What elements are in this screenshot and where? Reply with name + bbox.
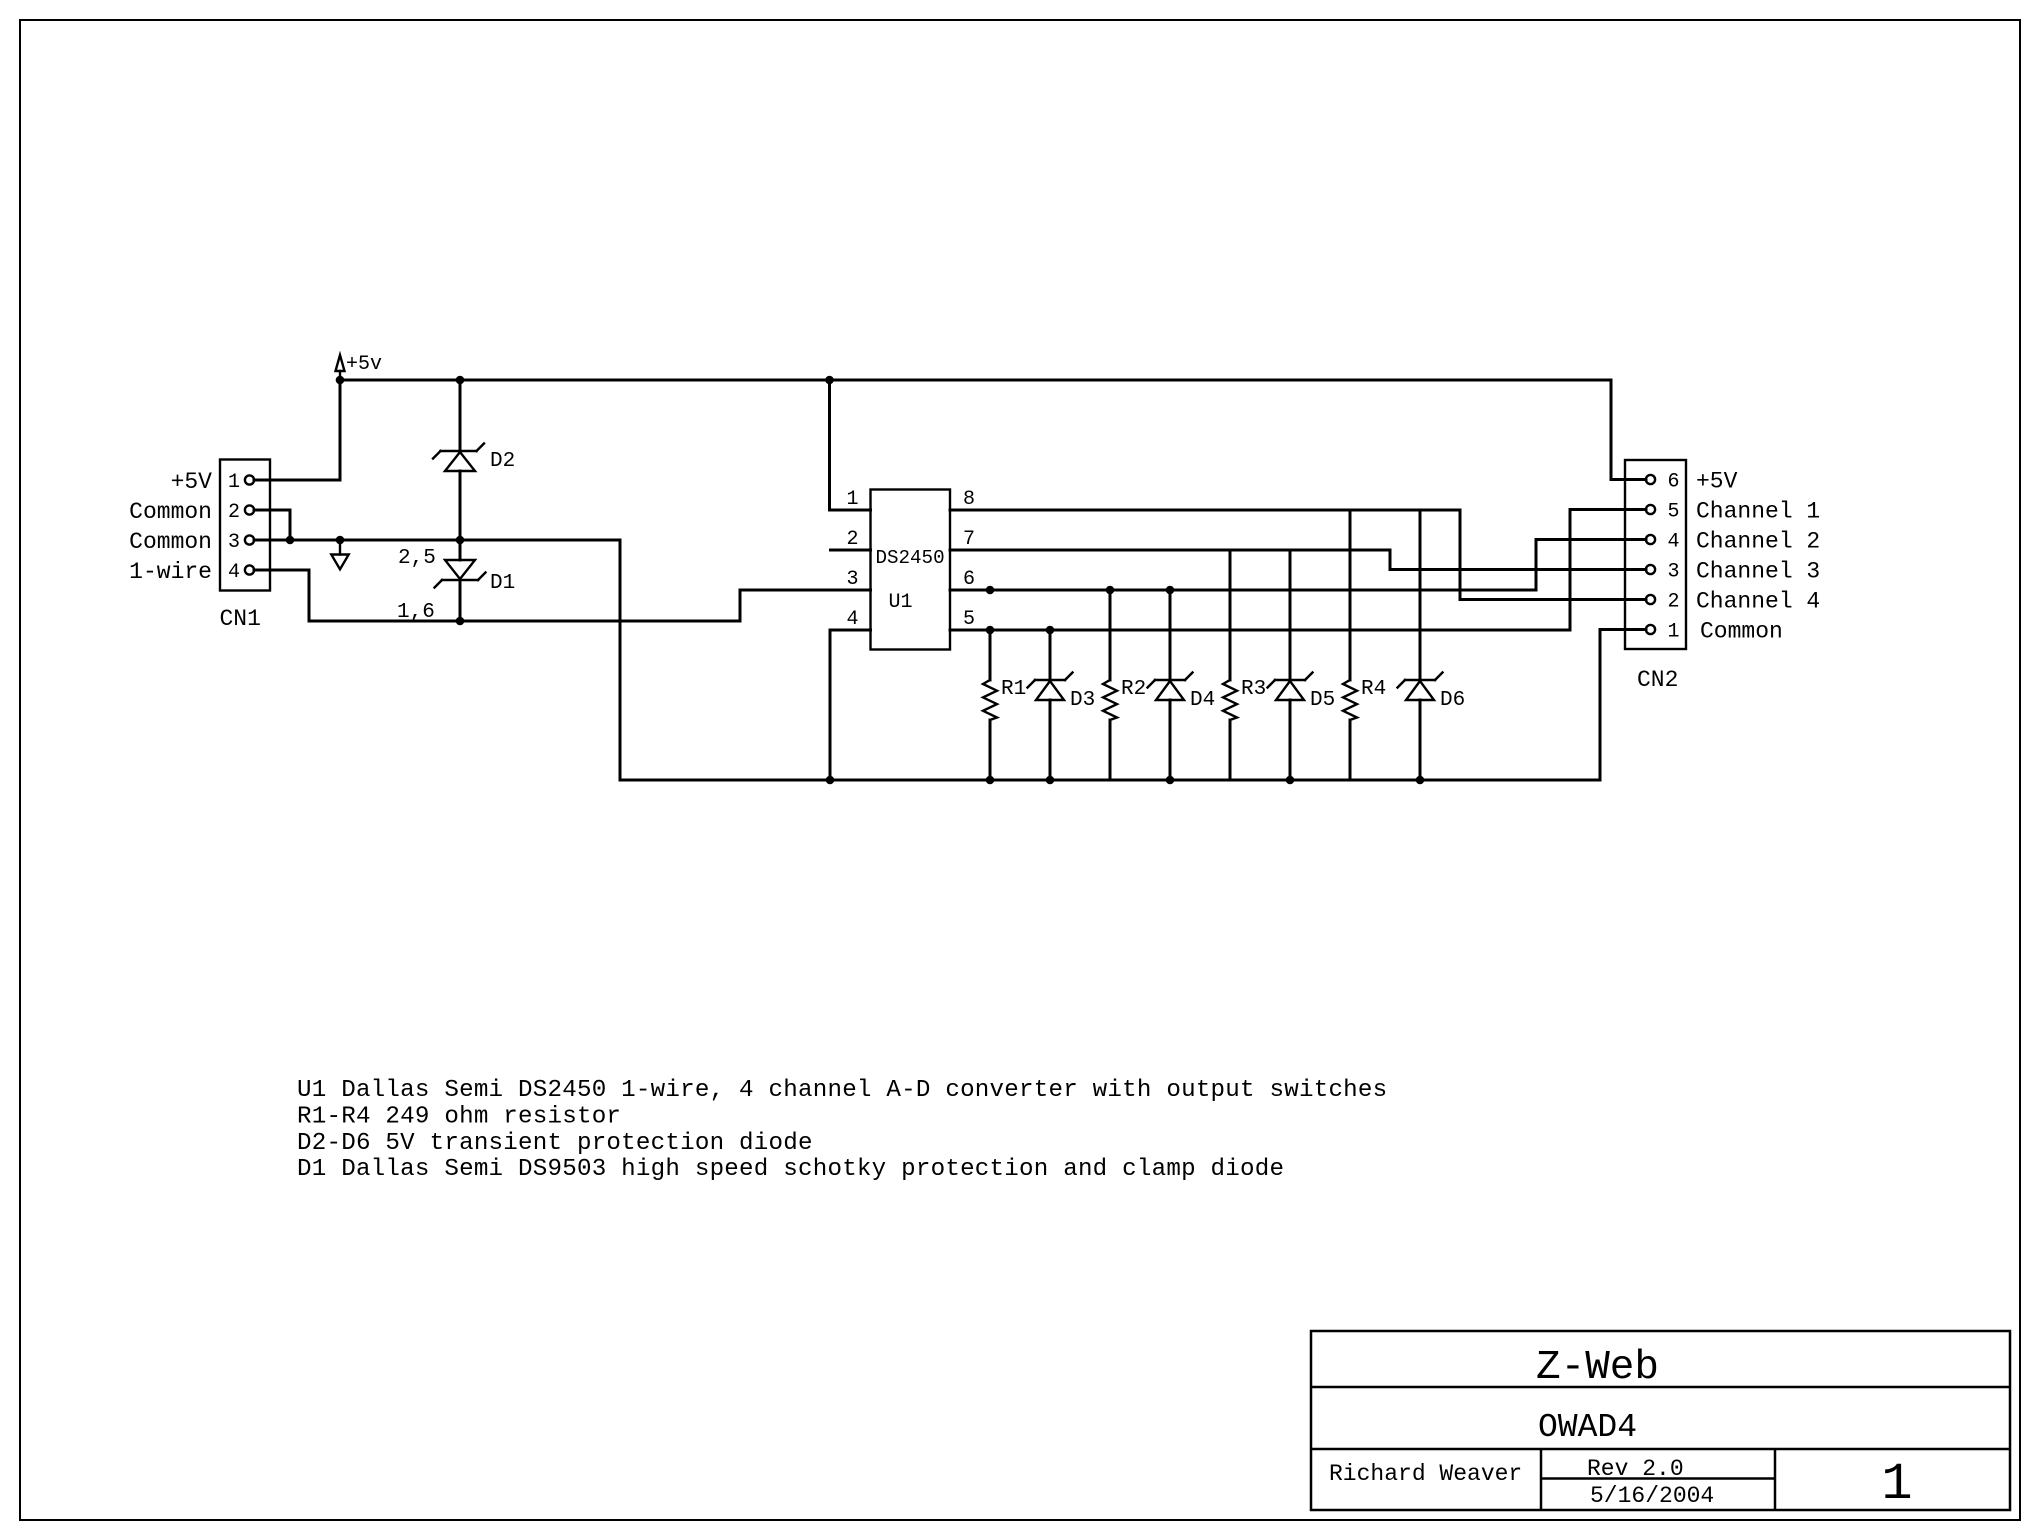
wire +5V rail to CN2 pin 6 bbox=[1611, 380, 1646, 480]
svg-text:Common: Common bbox=[1700, 619, 1783, 645]
node +5V rail / arrow / CN1 pin1 junction bbox=[336, 376, 345, 385]
svg-text:DS2450: DS2450 bbox=[876, 547, 945, 569]
IC U1 DS2450 bbox=[871, 490, 951, 650]
node ground rail / D5 bbox=[1286, 776, 1295, 785]
node Common / D2-D1 junction bbox=[456, 536, 465, 545]
node +5V rail / U1 pin1 junction bbox=[825, 376, 834, 385]
svg-text:R3: R3 bbox=[1241, 678, 1266, 701]
node 1-wire / D1 junction bbox=[456, 617, 465, 626]
svg-text:CN1: CN1 bbox=[220, 606, 261, 632]
svg-text:+5V: +5V bbox=[1696, 469, 1738, 495]
power symbol +5v bbox=[336, 353, 383, 380]
diode D4 bbox=[1148, 590, 1216, 780]
node pin5 net / R1 junction bbox=[986, 626, 995, 635]
node Common / ground junction bbox=[336, 536, 345, 545]
svg-text:6: 6 bbox=[963, 568, 975, 591]
wire 1-wire from CN1 pin4 bbox=[254, 570, 740, 621]
wire 1-wire to U1 pin 3 bbox=[740, 590, 871, 621]
svg-text:1: 1 bbox=[1881, 1455, 1912, 1514]
svg-text:U1: U1 bbox=[889, 591, 913, 614]
svg-text:R4: R4 bbox=[1361, 678, 1386, 701]
diode D5 bbox=[1268, 550, 1336, 780]
CN2 pin numbers bbox=[1667, 471, 1679, 644]
CN2 pin labels bbox=[1696, 469, 1820, 645]
CN1 pin numbers bbox=[228, 471, 240, 584]
svg-text:2,5: 2,5 bbox=[398, 547, 436, 570]
svg-text:D6: D6 bbox=[1440, 689, 1465, 712]
node ground rail / D3 bbox=[1046, 776, 1055, 785]
svg-text:6: 6 bbox=[1667, 471, 1679, 494]
svg-text:5/16/2004: 5/16/2004 bbox=[1590, 1483, 1714, 1509]
wire U1 pin 6 to CN2 pin 4 Channel 2 bbox=[950, 540, 1646, 591]
ground bbox=[331, 540, 348, 569]
svg-text:2: 2 bbox=[1667, 591, 1679, 614]
svg-text:4: 4 bbox=[228, 561, 240, 584]
svg-text:OWAD4: OWAD4 bbox=[1538, 1409, 1637, 1446]
CN1 pin labels bbox=[129, 469, 212, 585]
svg-text:R1-R4 249 ohm resistor: R1-R4 249 ohm resistor bbox=[297, 1103, 621, 1130]
connector CN2 bbox=[1625, 460, 1686, 649]
resistor R2 bbox=[1103, 590, 1146, 780]
wire U1 pin 1 to +5V rail bbox=[830, 380, 871, 510]
svg-text:Channel 1: Channel 1 bbox=[1696, 499, 1820, 525]
svg-text:D2-D6 5V transient protection: D2-D6 5V transient protection diode bbox=[297, 1130, 813, 1157]
svg-text:D3: D3 bbox=[1070, 689, 1095, 712]
svg-text:+5V: +5V bbox=[171, 469, 213, 495]
U1 pin numbers bbox=[846, 488, 975, 631]
diode D3 bbox=[1028, 630, 1096, 780]
node pin6 net / R2 junction bbox=[1106, 586, 1115, 595]
svg-text:D1: D1 bbox=[490, 572, 515, 595]
svg-text:Common: Common bbox=[129, 529, 212, 555]
svg-text:5: 5 bbox=[1667, 501, 1679, 524]
svg-text:2: 2 bbox=[228, 501, 240, 524]
node pin5 net / D3 junction bbox=[1046, 626, 1055, 635]
svg-text:Channel 4: Channel 4 bbox=[1696, 589, 1820, 615]
svg-text:Channel 3: Channel 3 bbox=[1696, 559, 1820, 585]
svg-text:4: 4 bbox=[846, 608, 858, 631]
svg-text:3: 3 bbox=[846, 568, 858, 591]
wire Common from CN1 pin3 bbox=[254, 539, 620, 542]
svg-text:1,6: 1,6 bbox=[397, 601, 435, 624]
svg-text:R2: R2 bbox=[1121, 678, 1146, 701]
svg-text:Common: Common bbox=[129, 499, 212, 525]
diode D6 bbox=[1398, 510, 1466, 780]
wire ground rail bbox=[620, 779, 1600, 782]
svg-text:+5v: +5v bbox=[346, 353, 382, 376]
wire CN1 pin1 to +5V rail bbox=[254, 380, 340, 480]
wire U1 pin 4 to ground rail bbox=[830, 630, 871, 780]
node ground rail / R1 bbox=[986, 776, 995, 785]
node U1 pin4 / ground rail junction bbox=[826, 776, 835, 785]
svg-text:D5: D5 bbox=[1310, 689, 1335, 712]
svg-text:5: 5 bbox=[963, 608, 975, 631]
diode D2 bbox=[433, 380, 515, 540]
svg-text:Z-Web: Z-Web bbox=[1536, 1345, 1659, 1391]
connector CN1 bbox=[220, 460, 270, 591]
node on pin6 net (stray junction) bbox=[986, 586, 995, 595]
svg-text:2: 2 bbox=[846, 528, 858, 551]
svg-text:7: 7 bbox=[963, 528, 975, 551]
wire +5V rail bbox=[340, 379, 1611, 382]
svg-text:4: 4 bbox=[1667, 531, 1679, 554]
svg-text:D1 Dallas Semi DS9503 high spe: D1 Dallas Semi DS9503 high speed schotky… bbox=[297, 1156, 1284, 1183]
title block bbox=[1311, 1331, 2010, 1514]
wire Common to CN2 pin 1 bbox=[1600, 630, 1646, 781]
svg-text:1: 1 bbox=[846, 488, 858, 511]
diode D1 bbox=[435, 540, 516, 621]
svg-text:Richard Weaver: Richard Weaver bbox=[1329, 1461, 1522, 1487]
node pin6 net / D4 junction bbox=[1166, 586, 1175, 595]
wire U1 pin 7 to CN2 pin 3 Channel 3 bbox=[950, 550, 1646, 570]
node +5V rail / D2 junction bbox=[456, 376, 465, 385]
node ground rail / D6 bbox=[1416, 776, 1425, 785]
wire U1 pin 8 to CN2 pin 2 Channel 4 bbox=[950, 510, 1646, 600]
resistor R3 bbox=[1223, 550, 1266, 780]
wire U1 pin 2 stub bbox=[831, 549, 871, 552]
svg-text:Channel 2: Channel 2 bbox=[1696, 529, 1820, 555]
svg-text:D2: D2 bbox=[490, 450, 515, 473]
resistor R1 bbox=[983, 630, 1026, 780]
wire CN1 pin2 to Common bbox=[254, 510, 290, 540]
node ground rail / D4 bbox=[1166, 776, 1175, 785]
svg-text:1: 1 bbox=[228, 471, 240, 494]
svg-text:D4: D4 bbox=[1190, 689, 1215, 712]
resistor R4 bbox=[1343, 510, 1386, 780]
svg-text:Rev 2.0: Rev 2.0 bbox=[1587, 1456, 1684, 1482]
svg-text:8: 8 bbox=[963, 488, 975, 511]
svg-text:3: 3 bbox=[228, 531, 240, 554]
svg-text:U1 Dallas Semi DS2450 1-wire,: U1 Dallas Semi DS2450 1-wire, 4 channel … bbox=[297, 1077, 1387, 1104]
svg-text:1: 1 bbox=[1667, 621, 1679, 644]
wire Common down leg bbox=[619, 540, 622, 780]
svg-text:3: 3 bbox=[1667, 561, 1679, 584]
wire U1 pin 5 to CN2 pin 5 Channel 1 bbox=[950, 510, 1646, 631]
svg-text:1-wire: 1-wire bbox=[129, 559, 212, 585]
notes text block bbox=[297, 1077, 1387, 1183]
svg-text:R1: R1 bbox=[1001, 678, 1026, 701]
svg-text:CN2: CN2 bbox=[1637, 667, 1678, 693]
node CN1 pin2/pin3 junction bbox=[286, 536, 295, 545]
